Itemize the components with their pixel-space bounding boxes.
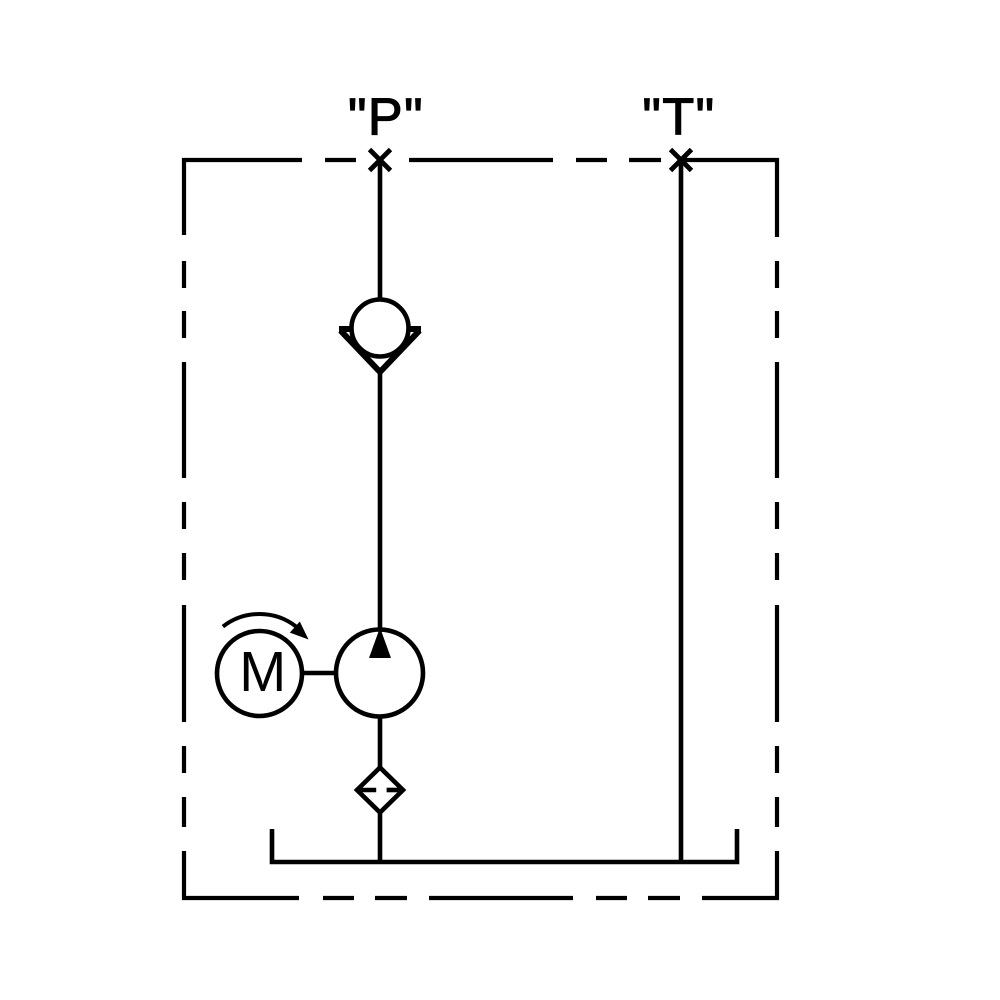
check valve V1: seat [339,329,421,372]
enclosure bottom border (phantom dashes) [184,851,777,898]
filter F1: element (dashed) [359,788,402,793]
port T X mark [671,150,692,171]
enclosure right border (phantom dashes) [775,261,779,827]
wire: filter to tank [378,810,383,864]
enclosure top border (phantom dashes) [184,160,777,237]
wire: pump suction to filter [378,717,383,770]
wire: P line from check valve to pump [378,372,383,630]
svg-text:"T": "T" [642,89,715,147]
svg-text:"P": "P" [348,89,424,147]
check valve V1: ball [352,300,409,357]
filter F1: body diamond [357,768,403,813]
rotation direction arrowhead [290,622,309,640]
tank / reservoir [272,829,737,862]
wire: P line from port to check valve [378,160,383,301]
port P X mark [370,150,391,171]
drive shaft wire [302,671,336,676]
wire: T line from port to tank [679,160,684,864]
electric motor M1: case [217,631,302,716]
enclosure left border (phantom dashes) [182,261,186,827]
svg-text:M: M [239,640,286,703]
pump P1: case [336,630,423,717]
pump P1: flow direction triangle [369,628,391,659]
rotation direction arc [223,614,296,627]
